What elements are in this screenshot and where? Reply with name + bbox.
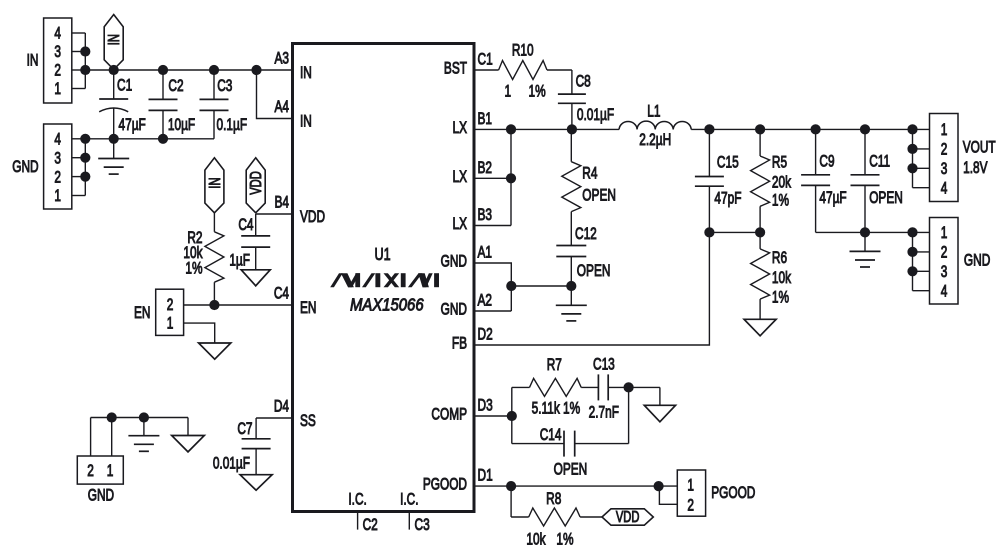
junction C3 top [209,65,219,75]
svg-text:4: 4 [941,283,948,301]
net flag VDD (pullup) [602,508,653,525]
junction PGOOD at R8 [506,481,516,491]
capacitor C15 47pF [695,129,742,232]
svg-text:1%: 1% [185,260,202,278]
junction VOUT node at R5 [755,124,765,134]
svg-text:2: 2 [167,296,174,314]
junction GND pin1 wire [107,412,117,422]
svg-text:2: 2 [687,497,694,515]
wire EN pin1 to ground [184,323,215,343]
svg-text:IN: IN [27,52,39,70]
svg-text:EN: EN [300,299,316,317]
junction PGOOD at connector [654,481,664,491]
svg-text:FB: FB [452,335,467,353]
wire FB pin D2 to divider node [474,232,709,345]
svg-text:2: 2 [54,62,61,80]
junction C9 top [811,124,821,134]
svg-text:C1: C1 [478,51,493,69]
junction LX at C8/R4 [567,124,577,134]
U1 right pin names [423,60,468,494]
junction EN node R2 [209,300,219,310]
svg-text:20k: 20k [772,174,792,192]
svg-text:C15: C15 [717,154,739,172]
svg-text:1%: 1% [529,83,546,101]
MAXIM logo [330,273,439,287]
svg-text:1: 1 [941,121,948,139]
wire EN pin2 to IC pin C4 [184,304,293,306]
svg-text:GND: GND [964,252,990,270]
U1 left pin names [300,64,325,430]
junction VOUT bus3 [907,163,917,173]
svg-text:LX: LX [452,119,467,137]
svg-text:GND: GND [441,253,467,271]
junction on IN bus pin2 [80,65,90,75]
resistor R2 10k 1% [183,213,224,305]
junction FB node C15 [704,227,714,237]
svg-text:1.8V: 1.8V [963,159,988,177]
junction C12 bottom [566,281,576,291]
junction COMP node [507,411,517,421]
capacitor C2 10uF [149,70,196,139]
svg-text:PGOOD: PGOOD [711,484,755,502]
U1 left pin numbers A3 A4 B4 C4 D4 [274,50,289,416]
connector VOUT (4-pin header) [913,114,996,202]
net flag IN (input) [104,15,123,70]
wire VOUT rail [709,128,912,130]
ground (triangle) bottom-left [172,418,205,452]
svg-text:4: 4 [941,180,948,198]
svg-text:C2: C2 [363,516,378,534]
junction GND bus pin2 [80,172,90,182]
svg-text:1: 1 [941,224,948,242]
capacitor C8 0.01uF [558,73,614,130]
capacitor C7 0.01uF [213,418,271,475]
wire BST pin C1 [474,69,499,71]
wire IN to pin A4 [257,70,293,119]
svg-text:2: 2 [87,462,94,480]
junction C2 top [158,65,168,75]
svg-text:A2: A2 [478,292,493,310]
wire GND rail under input caps [85,138,214,140]
ground (earth) under C1 [98,139,129,174]
svg-text:GND: GND [441,301,467,319]
wire to comp ground [659,387,661,405]
wire GND pins A1 A2 tie [474,263,571,311]
svg-text:D4: D4 [274,398,289,416]
svg-text:1: 1 [54,187,61,205]
svg-text:C9: C9 [819,153,834,171]
svg-text:0.1µF: 0.1µF [217,116,248,134]
svg-text:C3: C3 [217,77,232,95]
capacitor C1 47uF [99,70,146,139]
svg-text:MAX15066: MAX15066 [350,295,424,314]
ground (triangle) comp [644,405,675,422]
junction C11 top [860,124,870,134]
svg-text:2: 2 [54,169,61,187]
capacitor C12 OPEN [556,225,610,286]
svg-text:47µF: 47µF [119,116,146,134]
svg-text:L1: L1 [647,103,660,121]
wire VDD to pin B4 [256,213,293,215]
junction on IN bus pin3 [80,46,90,56]
junction VOUT node at C15 [704,124,714,134]
svg-text:VOUT: VOUT [963,139,996,157]
junction LX B2 [506,173,516,183]
wire LX pins B2 B3 tie [474,129,511,225]
svg-text:3: 3 [54,43,61,61]
svg-text:B3: B3 [478,206,493,224]
junction C13 right [624,382,634,392]
svg-text:VDD: VDD [616,508,640,525]
junction C2 bottom [158,134,168,144]
svg-text:C2: C2 [168,77,183,95]
svg-text:LX: LX [452,215,467,233]
capacitor C4 1uF [229,214,270,270]
svg-text:3: 3 [941,160,948,178]
ground (triangle) EN pin1 [199,343,231,359]
svg-text:LX: LX [452,168,467,186]
svg-text:I.C.: I.C. [400,491,418,509]
svg-text:5.11k 1%: 5.11k 1% [532,400,581,418]
junction VOUT bus2 [907,144,917,154]
svg-text:EN: EN [134,304,150,322]
svg-text:2.7nF: 2.7nF [589,404,620,422]
svg-text:10k: 10k [772,269,792,287]
ground (triangle) under R6 [744,319,776,336]
svg-text:A1: A1 [478,244,493,262]
svg-text:C1: C1 [117,77,132,95]
svg-text:1: 1 [54,80,61,98]
resistor R5 20k 1% [751,129,792,232]
svg-text:3: 3 [941,263,948,281]
svg-text:IN: IN [300,113,312,131]
U1 bottom I.C. pin names [348,491,418,509]
U1 right pin numbers C1 B1 B2 B3 A1 A2 D2 D3 D1 [478,51,493,485]
junction C1 bottom [109,134,119,144]
capacitor C14 OPEN [512,426,629,479]
net flag VDD (to VDD pin) [246,158,265,213]
op-amp U1 body (MAX15066 IC outline) [293,44,475,512]
svg-text:C8: C8 [576,73,591,91]
svg-text:OPEN: OPEN [582,187,616,205]
junction GND bus1 [907,227,917,237]
connector GND (2-pin) [77,456,123,505]
svg-text:U1: U1 [375,245,391,265]
svg-text:C14: C14 [540,426,562,444]
svg-text:OPEN: OPEN [869,189,903,207]
svg-text:GND: GND [88,487,114,505]
svg-text:BST: BST [444,60,467,78]
wire PGOOD pin2 loop [659,486,677,504]
svg-text:10µF: 10µF [168,116,195,134]
svg-text:C12: C12 [575,225,597,243]
svg-text:R10: R10 [512,42,534,60]
ground (triangle) under C4 [241,270,270,286]
svg-text:A3: A3 [274,50,289,68]
svg-text:D3: D3 [478,397,493,415]
svg-text:IN: IN [300,64,312,82]
junction LX at B1 tie [506,124,516,134]
svg-text:C11: C11 [869,153,890,171]
junction GND bus pin4 [80,134,90,144]
svg-text:C7: C7 [237,420,252,438]
svg-text:2: 2 [941,141,948,159]
wire C14 return vertical [628,387,630,443]
svg-text:VDD: VDD [300,208,325,226]
capacitor C9 47uF [801,129,847,232]
svg-text:A4: A4 [274,98,289,116]
capacitor C11 OPEN [851,129,903,232]
junction C1 top [109,65,119,75]
svg-text:SS: SS [300,412,316,430]
wire COMP top branch [512,386,530,388]
svg-text:47µF: 47µF [819,189,846,207]
svg-text:R6: R6 [772,249,787,267]
svg-text:C3: C3 [415,516,430,534]
svg-text:B4: B4 [274,194,289,212]
junction earth stub [139,412,149,422]
wire PGOOD pin D1 [474,485,677,487]
junction A1A2 node [506,281,516,291]
net flag IN (to EN divider) [205,158,224,213]
inductor L1 2.2uH [619,103,709,150]
junction GND bus2 [907,247,917,257]
junction GND bus3 [907,266,917,276]
resistor R7 5.11k 1% [530,356,599,418]
connector IN (4-pin header) [27,18,86,103]
svg-text:3: 3 [54,150,61,168]
junction C11 bottom [860,227,870,237]
wire GND 2-pin to grounds [91,418,188,457]
U1 reference designator [375,245,391,265]
svg-text:1: 1 [107,462,114,480]
resistor R6 10k 1% [751,232,792,319]
U1 bottom pin stubs C2 C3 [358,512,430,535]
connector GND right (4-pin header) [913,218,991,305]
ground (earth) bottom-left [128,418,159,452]
svg-text:0.01µF: 0.01µF [213,455,250,473]
svg-text:C4: C4 [238,216,253,234]
capacitor C13 2.7nF [589,356,660,422]
svg-text:R8: R8 [546,490,561,508]
svg-text:1: 1 [687,477,694,495]
wire SS pin D4 [256,417,292,419]
svg-text:1%: 1% [772,289,789,307]
svg-text:OPEN: OPEN [554,461,588,479]
junction GND bus pin3 [80,153,90,163]
svg-text:10k: 10k [526,531,546,549]
capacitor C3 0.1uF [200,70,248,139]
svg-text:1: 1 [504,83,511,101]
svg-text:4: 4 [54,25,61,43]
svg-text:COMP: COMP [431,406,467,424]
connector EN (2-pin) [134,289,184,335]
wire output ground rail [816,231,913,233]
wire VIN rail to IC pin A3 [85,69,292,71]
connector GND (4-pin header) [12,124,85,209]
svg-text:1µF: 1µF [229,252,250,270]
svg-text:VDD: VDD [247,171,264,195]
svg-text:B1: B1 [478,110,493,128]
junction VOUT bus1 [907,124,917,134]
svg-text:D1: D1 [478,467,493,485]
svg-text:R5: R5 [772,154,787,172]
svg-text:IN: IN [206,177,223,188]
U1 part number MAX15066 [350,295,424,314]
svg-text:47pF: 47pF [714,190,741,208]
svg-text:PGOOD: PGOOD [423,476,467,494]
connector PGOOD (2-pin) [677,470,755,516]
svg-text:1: 1 [167,315,174,333]
svg-text:R7: R7 [547,356,562,374]
junction FB node R5R6 [755,227,765,237]
svg-text:C4: C4 [274,285,289,303]
svg-text:2.2µH: 2.2µH [639,131,671,149]
ground (earth) output [850,232,881,267]
ground (triangle) under C7 [240,475,272,491]
svg-text:B2: B2 [478,159,493,177]
resistor R10 1ohm 1% [499,42,572,101]
wire LX rail pin B1 to L1 [474,128,619,130]
svg-text:GND: GND [12,158,38,176]
svg-text:I.C.: I.C. [348,491,366,509]
resistor R8 10k 1% [511,486,602,549]
svg-text:IN: IN [105,34,122,45]
svg-text:R4: R4 [582,165,597,183]
wire FB node horizontal [709,231,760,233]
wire COMP branch vertical [511,387,513,443]
junction A4 branch [251,65,261,75]
svg-text:2: 2 [941,244,948,262]
svg-text:OPEN: OPEN [577,262,611,280]
svg-text:1%: 1% [556,531,573,549]
svg-text:D2: D2 [478,326,493,344]
svg-text:0.01µF: 0.01µF [577,106,614,124]
svg-text:C13: C13 [593,356,615,374]
svg-text:1%: 1% [772,192,789,210]
resistor R4 OPEN [562,129,616,245]
svg-text:4: 4 [54,131,61,149]
wire COMP pin D3 [474,415,512,417]
ground (earth) under C12 [556,286,587,321]
